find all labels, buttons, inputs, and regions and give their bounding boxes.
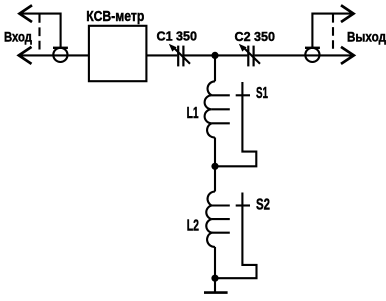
wire L2 bottom to node C bbox=[214, 247, 216, 278]
connector XW1 (coax socket) bbox=[53, 48, 68, 62]
arrowhead input top (points left) bbox=[20, 5, 33, 22]
switch S2 (tap selector) bbox=[215, 193, 257, 279]
connector XW2 (coax socket) bbox=[305, 48, 320, 62]
svg-text:КСВ-метр: КСВ-метр bbox=[86, 9, 144, 25]
switch S1 (tap selector) bbox=[215, 82, 256, 166]
L1 tap wires bbox=[212, 95, 230, 123]
wire node C to ground bbox=[214, 278, 216, 292]
node B junction dot bbox=[211, 163, 218, 170]
wire C2 to output arrow bbox=[255, 54, 352, 56]
wire box to C1 bbox=[146, 54, 177, 56]
ground bbox=[204, 291, 228, 294]
svg-text:Выход: Выход bbox=[347, 28, 386, 44]
svg-text:C2 350: C2 350 bbox=[235, 29, 276, 44]
capacitor C1 (variable) bbox=[169, 44, 190, 67]
capacitor C2 (variable) bbox=[239, 44, 260, 67]
wire node A down to L1 bbox=[214, 55, 216, 81]
svg-text:Вход: Вход bbox=[4, 28, 32, 44]
svg-text:S1: S1 bbox=[256, 85, 268, 102]
wire input center conductor bbox=[20, 54, 89, 56]
L2 tap wires bbox=[212, 206, 230, 233]
inductor L2 bbox=[206, 191, 215, 246]
wire node B down to L2 bbox=[214, 166, 216, 191]
node A junction dot bbox=[211, 52, 218, 59]
node C junction dot bbox=[211, 275, 218, 282]
svg-text:S2: S2 bbox=[256, 197, 270, 214]
arrowhead output top (points right) bbox=[341, 5, 354, 22]
wire top-right shield line to connector XW2 bbox=[312, 14, 353, 48]
arrowhead output bottom (points right) bbox=[341, 47, 354, 64]
svg-text:L2: L2 bbox=[187, 217, 199, 234]
svg-text:C1 350: C1 350 bbox=[157, 29, 198, 44]
SWR meter box U1 bbox=[89, 26, 146, 81]
arrowhead input bottom (points left) bbox=[19, 47, 32, 64]
wire top-left shield line bbox=[20, 14, 61, 48]
dashed coax screen line left bbox=[38, 14, 40, 50]
svg-text:L1: L1 bbox=[187, 105, 199, 122]
wire L1 bottom to node B bbox=[214, 138, 216, 167]
dashed coax screen line right bbox=[332, 14, 334, 51]
wire C1 to C2 through node A bbox=[184, 54, 247, 56]
inductor L1 bbox=[205, 81, 215, 137]
